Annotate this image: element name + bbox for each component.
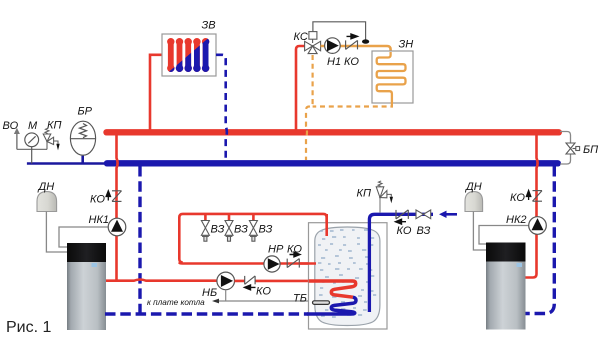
radiator sections blue (diagonal split) [167,38,209,72]
pipe: boiler return bottom run (blue dashed) [105,312,308,315]
pipe: red supply main [107,129,559,135]
check valve КО (НБ) [245,276,255,284]
svg-text:КС: КС [294,31,308,43]
wire: radiator red riser [150,55,163,133]
zone valve ВЗ 1 [201,221,209,242]
tank vessel [315,227,380,326]
svg-text:КО: КО [287,244,302,256]
svg-text:БП: БП [583,144,598,156]
svg-text:ЗН: ЗН [399,38,414,50]
pipe: floor-heating return (orange dashed) [306,55,313,160]
zone valve stub 2 [228,214,231,221]
left boiler logo [92,263,98,267]
svg-text:ДН: ДН [464,181,482,193]
svg-text:БР: БР [78,106,93,118]
expansion tank БР [70,121,95,163]
sensor pocket ТБ [313,301,330,305]
svg-text:КО: КО [397,225,412,237]
tank outer box [309,223,388,329]
check valve КО (right boiler) [533,191,543,202]
svg-text:ВЗ: ВЗ [234,224,248,236]
pipe: cold water inlet (blue) [369,214,433,312]
svg-text:ВЗ: ВЗ [259,224,273,236]
svg-text:КО: КО [256,285,271,297]
check valve КО (left boiler) [112,191,122,202]
pipe: left boiler red riser [117,135,118,280]
right boiler body [486,243,526,330]
pipe: DHW supply into tank (red) [325,214,328,236]
check valve КО (НР) [287,259,299,268]
svg-text:НР: НР [268,244,284,256]
wire: bypass БП connector [560,132,571,165]
svg-text:ВЗ: ВЗ [211,224,225,236]
zone valve ВЗ 3 [249,221,257,242]
floor heating coil [377,52,406,103]
wire: safety-group header line [27,162,106,165]
connector bar [17,148,47,150]
wire: mixing unit red riser [296,46,304,133]
check valve КО (cold water) [396,210,408,219]
svg-text:ВЗ: ВЗ [417,225,431,237]
wire: НБ control drop [225,290,227,301]
wire: right sensor to boiler [473,212,486,251]
pump НБ [217,272,235,290]
svg-text:ДН: ДН [37,181,55,193]
pump НК2 [529,217,547,235]
svg-text:КО: КО [510,192,525,204]
right boiler logo [517,263,523,267]
zone valve stub 3 [252,214,255,221]
cold water flow arrow [446,213,457,216]
tank water texture [318,230,376,317]
svg-text:КП: КП [357,187,371,199]
pipe: boiler loading line (red) [106,280,217,281]
pipe: right boiler red drop [526,135,538,278]
svg-text:Рис. 1: Рис. 1 [6,319,52,336]
svg-text:КО: КО [90,194,105,206]
safety valve КП (tank) [379,198,381,213]
safety valve КП [43,128,60,150]
pipe: ЗН coil exit stub (orange dashed) [313,103,392,107]
svg-text:ВО: ВО [3,120,19,132]
left boiler top panel [67,243,106,262]
right boiler top panel [486,243,526,262]
svg-text:ЗВ: ЗВ [202,20,216,32]
wire: left sensor to boiler [46,212,67,253]
pump НК1 [108,218,126,236]
wire: sensor line to boiler board [214,300,313,302]
floor heating ЗН box [372,51,413,103]
check valve КО (after Н1) [346,40,358,49]
svg-text:КП: КП [47,120,61,132]
svg-text:ТБ: ТБ [293,293,307,305]
tank coil (blue cold) [307,297,356,314]
svg-text:НК2: НК2 [506,214,527,226]
DHW manifold (red) [179,214,326,263]
right boiler ДН sensor [465,192,483,212]
pipe: recirculation line (red) [179,263,316,264]
pipe: recirc into tank (red) [300,262,317,265]
junction dot [362,39,369,43]
left boiler ДН sensor [37,192,57,212]
pump Н1 [325,38,341,54]
3-way valve КС [305,32,321,54]
wire: left pump to boiler [59,227,108,247]
zone valve ВЗ 2 [225,221,233,242]
wire: radiator blue return (dashed) [216,55,227,161]
pipe: mixed supply to ЗН (orange) [321,46,391,52]
radiator ЗВ box [162,34,216,76]
tank coil (red hot) [309,281,356,297]
zone valve stub 1 [204,214,207,221]
pipe: blue return main [107,160,558,166]
pipe: right boiler return (blue dashed) [526,166,555,314]
pipe: НБ to tank (red) [235,280,333,283]
svg-text:НК1: НК1 [89,214,110,226]
wire: pump control (gray) [313,22,366,41]
svg-text:М: М [28,120,38,132]
air vent ВО [14,128,20,150]
svg-text:Н1: Н1 [327,56,341,68]
svg-text:КО: КО [344,56,359,68]
pump НР [264,256,280,272]
shutoff valve ВЗ (cold water) [416,210,431,219]
svg-text:к плате котла: к плате котла [147,298,205,307]
bypass valve БП [566,143,580,154]
manometer М [25,133,39,164]
pipe: boiler return left drop (blue dashed) [138,166,141,314]
wire: right pump to boiler [479,226,529,245]
